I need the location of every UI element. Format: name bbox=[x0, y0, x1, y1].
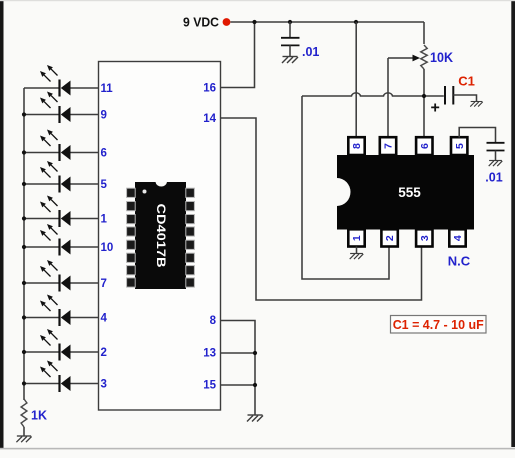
svg-text:4: 4 bbox=[101, 313, 108, 325]
wire: rail down to pot bbox=[423, 22, 425, 44]
svg-text:6: 6 bbox=[101, 148, 107, 160]
wire: LED to CD4017B pin 2 bbox=[71, 351, 99, 353]
note box C1 = 4.7 - 10 uF bbox=[391, 316, 487, 334]
junction bbox=[22, 182, 26, 186]
wire: pot bottom to 555 pin 6 bbox=[423, 69, 425, 138]
LED D5 bbox=[40, 196, 71, 228]
svg-text:8: 8 bbox=[210, 315, 217, 327]
wire: LED to CD4017B pin 10 bbox=[71, 246, 99, 248]
wire: LED anode bus bbox=[23, 88, 25, 400]
ground (CD4017 8/13/15) bbox=[247, 415, 263, 422]
svg-text:.01: .01 bbox=[302, 45, 319, 59]
svg-text:555: 555 bbox=[398, 185, 421, 200]
wire: bus to LED row pin 9 bbox=[24, 114, 60, 116]
junction bbox=[22, 112, 26, 116]
ground (C1) bbox=[470, 102, 482, 107]
svg-text:15: 15 bbox=[203, 380, 216, 392]
wire: LED to CD4017B pin 9 bbox=[71, 114, 99, 116]
junction bbox=[422, 94, 426, 98]
wire: LED to CD4017B pin 5 bbox=[71, 183, 99, 185]
junction bbox=[22, 381, 26, 385]
wire: bus to LED row pin 6 bbox=[24, 152, 60, 154]
junction bbox=[22, 150, 26, 154]
555 notch bbox=[337, 178, 351, 206]
pot wiper arrow bbox=[388, 57, 413, 59]
wire: pin 2 loop bbox=[302, 96, 389, 279]
svg-text:9: 9 bbox=[101, 110, 107, 122]
wire: pin 15 bbox=[221, 384, 256, 386]
potentiometer R2 10K bbox=[421, 45, 427, 69]
555 pin 8 bbox=[348, 137, 364, 155]
junction bbox=[22, 350, 26, 354]
svg-text:C1 = 4.7 - 10 uF: C1 = 4.7 - 10 uF bbox=[393, 318, 484, 332]
svg-text:2: 2 bbox=[384, 235, 396, 241]
wire: bus to LED row pin 7 bbox=[24, 282, 60, 284]
wire: pin 13 bbox=[221, 352, 256, 354]
svg-text:8: 8 bbox=[351, 143, 363, 149]
CD4017B chip graphic bbox=[127, 182, 195, 289]
wire: bus to LED row pin 1 bbox=[24, 218, 60, 220]
svg-text:1: 1 bbox=[351, 235, 363, 241]
wire: pin6/pin2 net with hops bbox=[302, 93, 444, 96]
wire: 9V rail bbox=[230, 21, 424, 23]
junction bbox=[253, 351, 257, 355]
wire: bus to LED row pin 2 bbox=[24, 351, 60, 353]
junction bbox=[22, 216, 26, 220]
svg-text:7: 7 bbox=[383, 143, 395, 149]
555 pin 4 bbox=[449, 229, 465, 246]
svg-text:9 VDC: 9 VDC bbox=[183, 15, 220, 30]
junction bbox=[22, 281, 26, 285]
555 pin 7 bbox=[380, 137, 396, 155]
LED D3 bbox=[40, 130, 71, 162]
ground (bypass cap) bbox=[282, 57, 298, 64]
LED D4 bbox=[40, 161, 71, 193]
wire: bus to LED row pin 4 bbox=[24, 317, 60, 319]
ground (555 pin 1) bbox=[350, 254, 364, 260]
svg-text:6: 6 bbox=[419, 143, 431, 149]
svg-text:C1: C1 bbox=[458, 74, 475, 89]
left image border bbox=[0, 0, 4, 448]
wire: 555 pin 1 to ground bbox=[356, 247, 358, 254]
wire: LED to CD4017B pin 1 bbox=[71, 218, 99, 220]
capacitor C1 bbox=[444, 86, 446, 105]
LED D8 bbox=[40, 295, 71, 327]
svg-text:13: 13 bbox=[203, 348, 216, 360]
svg-text:10: 10 bbox=[101, 242, 114, 254]
junction bbox=[354, 20, 358, 24]
junction bbox=[288, 20, 292, 24]
svg-text:11: 11 bbox=[101, 83, 114, 95]
LED D7 bbox=[40, 260, 71, 292]
junction bbox=[22, 315, 26, 319]
svg-text:3: 3 bbox=[419, 235, 431, 241]
wire: pin 16 to 9V rail bbox=[221, 22, 255, 88]
bottom image border bbox=[0, 448, 515, 450]
junction bbox=[253, 383, 257, 387]
wire: 555 pin 5 to cap bbox=[459, 128, 495, 143]
IC U1 555 body bbox=[337, 155, 474, 230]
top image border bbox=[0, 0, 515, 1]
wire: LED to CD4017B pin 11 bbox=[71, 87, 99, 89]
wire: LED to CD4017B pin 7 bbox=[71, 282, 99, 284]
svg-text:5: 5 bbox=[101, 179, 108, 191]
svg-text:7: 7 bbox=[101, 278, 107, 290]
svg-text:1: 1 bbox=[101, 214, 108, 226]
wire: bus to LED row pin 11 bbox=[24, 87, 60, 89]
LED D1 bbox=[40, 65, 71, 97]
svg-text:3: 3 bbox=[101, 379, 107, 391]
svg-text:4: 4 bbox=[452, 235, 464, 241]
LED D10 bbox=[40, 361, 71, 393]
ground (pin 5 cap) bbox=[489, 161, 503, 167]
wire: rail to 555 pin 8 bbox=[355, 22, 357, 138]
wire: LED to CD4017B pin 4 bbox=[71, 317, 99, 319]
wire: bus to LED row pin 3 bbox=[24, 383, 60, 385]
wire: LED to CD4017B pin 6 bbox=[71, 152, 99, 154]
capacitor .01 (pin 5) bbox=[487, 142, 505, 144]
LED D6 bbox=[40, 224, 71, 256]
svg-text:.01: .01 bbox=[485, 171, 502, 185]
junction bbox=[252, 20, 256, 24]
svg-text:16: 16 bbox=[203, 83, 216, 95]
svg-text:14: 14 bbox=[203, 113, 216, 125]
LED D2 bbox=[40, 92, 71, 124]
555 pin 6 bbox=[416, 137, 432, 155]
wire: wiper to 555 pin 7 bbox=[387, 58, 389, 138]
svg-text:5: 5 bbox=[454, 143, 466, 149]
svg-text:+: + bbox=[431, 100, 440, 117]
svg-text:1K: 1K bbox=[31, 409, 47, 423]
resistor R1 1K bbox=[21, 399, 27, 427]
svg-text:2: 2 bbox=[101, 347, 107, 359]
555 pin 2 bbox=[381, 229, 397, 246]
capacitor .01 (supply bypass) bbox=[289, 22, 291, 38]
wire: LED to CD4017B pin 3 bbox=[71, 383, 99, 385]
svg-text:N.C: N.C bbox=[448, 254, 471, 269]
555 pin 3 bbox=[416, 229, 432, 246]
right image border bbox=[511, 0, 515, 447]
wire: pin 14 to 555 pin 3 bbox=[221, 118, 422, 300]
wire: bus to LED row pin 5 bbox=[24, 183, 60, 185]
svg-text:CD4017B: CD4017B bbox=[154, 204, 166, 268]
555 pin 1 bbox=[348, 229, 364, 246]
ground (R1) bbox=[16, 436, 31, 442]
wire: bus to LED row pin 10 bbox=[24, 246, 60, 248]
svg-text:10K: 10K bbox=[430, 50, 453, 65]
node: 9 VDC terminal bbox=[223, 18, 231, 26]
wire: pin 8 to ground bus bbox=[221, 321, 256, 416]
LED D9 bbox=[40, 329, 71, 361]
555 pin 5 bbox=[451, 137, 467, 155]
junction bbox=[22, 245, 26, 249]
IC U2 CD4017B block bbox=[99, 62, 221, 411]
